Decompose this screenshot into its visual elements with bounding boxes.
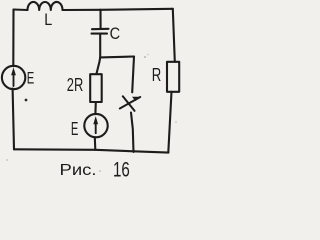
wire: right vertical lower bbox=[168, 92, 171, 153]
wire: middle branch junction to 2R bbox=[96, 57, 100, 74]
wire: switch branch vertical upper bbox=[132, 57, 134, 93]
source E1 circle bbox=[2, 66, 25, 89]
wire: capacitor branch top bbox=[99, 10, 101, 28]
arrow of source E1 bbox=[12, 69, 16, 87]
svg-text:E: E bbox=[71, 118, 79, 139]
svg-text:L: L bbox=[44, 11, 52, 29]
wire: capacitor branch below plates bbox=[99, 35, 101, 58]
faint paper speckles bbox=[144, 56, 146, 58]
wire: top segment capacitor branch to top-right corner bbox=[101, 9, 173, 10]
wire: E2 to bottom bbox=[94, 137, 97, 150]
wire: top segment from inductor to capacitor branch bbox=[63, 9, 101, 11]
inductor L bbox=[28, 2, 63, 10]
stray ink dot bbox=[25, 99, 28, 102]
wire: right vertical upper bbox=[173, 9, 175, 62]
wire: switch branch vertical lower bbox=[131, 113, 134, 153]
switch X mark bbox=[120, 96, 140, 111]
wire: left vertical lower bbox=[13, 89, 14, 150]
wire: top-left segment before inductor bbox=[14, 8, 28, 11]
arrow of source E2 bbox=[94, 117, 98, 133]
svg-text:C: C bbox=[110, 25, 121, 43]
wire: 2R to source E2 bbox=[94, 102, 97, 114]
source E2 circle bbox=[84, 114, 107, 137]
svg-text:Рис.: Рис. bbox=[60, 162, 97, 179]
svg-text:E: E bbox=[27, 69, 35, 87]
resistor R box bbox=[167, 62, 179, 92]
capacitor C plates bbox=[92, 29, 109, 34]
svg-text:16: 16 bbox=[113, 159, 130, 182]
svg-text:2R: 2R bbox=[67, 74, 84, 95]
svg-text:R: R bbox=[152, 65, 162, 85]
wire: left vertical upper bbox=[12, 10, 14, 67]
wire: middle horizontal to switch branch bbox=[100, 55, 134, 58]
wire: bottom bbox=[14, 149, 168, 152]
resistor 2R box bbox=[90, 74, 102, 102]
paper background bbox=[0, 0, 182, 184]
